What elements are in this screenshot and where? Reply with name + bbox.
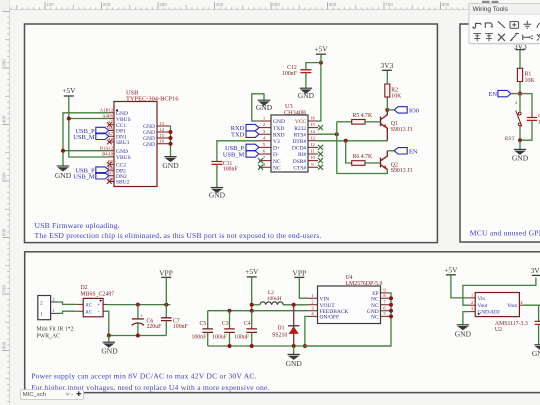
U4 right pin names [367, 291, 379, 321]
svg-text:VCC: VCC [295, 119, 307, 125]
svg-text:B4A9: B4A9 [102, 152, 114, 157]
U2 AMS1117-3.3 body [469, 298, 475, 312]
svg-text:RXD: RXD [273, 132, 285, 138]
capacitor C3 100uF [229, 311, 231, 329]
svg-text:VBUS: VBUS [116, 155, 131, 161]
wire: R5 left lead [337, 121, 352, 123]
svg-text:D+: D+ [273, 146, 280, 152]
wire: VCC up to +5V [318, 63, 321, 121]
junction GND branch [61, 149, 65, 153]
svg-text:+5V: +5V [314, 45, 328, 54]
capacitor (reset, right branch) [527, 118, 537, 121]
USB right pin names GND x4 [143, 124, 155, 148]
icon: ground flag [524, 21, 532, 28]
palette panel [470, 5, 540, 45]
wire: connector pin1 to D2 [57, 311, 77, 313]
wire VBUS B-side [69, 119, 109, 158]
svg-text:13: 13 [160, 121, 165, 126]
junction RTS# [335, 132, 339, 136]
sheet 2 (top-right schematic page) [460, 24, 540, 242]
svg-text:14: 14 [310, 129, 315, 134]
svg-text:Vin: Vin [478, 296, 486, 302]
wire GND A-side [63, 113, 109, 166]
wire: ON/OFF to GND rail [305, 316, 308, 346]
svg-text:100uH: 100uH [267, 296, 282, 302]
wire: R6 branch [346, 141, 352, 163]
wire: GND rail (caps) [208, 345, 391, 347]
wire: +5V stem down through rails [251, 277, 253, 311]
svg-text:+5V: +5V [245, 267, 259, 276]
wire: cap bottom to node [520, 121, 532, 141]
svg-text:EN: EN [409, 148, 418, 155]
svg-text:400: 400 [2, 115, 7, 123]
icon: pin [523, 35, 533, 40]
U4 left pin numbers [311, 293, 314, 316]
svg-text:R6 4.7K: R6 4.7K [353, 154, 373, 160]
svg-text:LM2576DP-5.0: LM2576DP-5.0 [346, 281, 383, 287]
no-connect X on pin8 NC [258, 165, 263, 170]
svg-text:220uF: 220uF [147, 324, 163, 330]
wire: R6 right lead to Q2 base [365, 162, 380, 164]
svg-text:600: 600 [2, 228, 7, 236]
svg-text:GND: GND [101, 347, 118, 356]
U4 LM2576DP-5.0 body [318, 286, 381, 324]
wire: R1 to EN node [519, 82, 521, 94]
svg-text:A6: A6 [108, 125, 114, 130]
svg-text:GND: GND [532, 349, 540, 358]
junction GND 14 [169, 130, 173, 134]
wire: U3 pin1 GND loop up [252, 94, 264, 121]
wire: connector pin2 to D2 [57, 302, 77, 304]
svg-text:NC: NC [371, 297, 379, 303]
capacitor C7 100nF [165, 305, 167, 318]
svg-text:100nF: 100nF [173, 324, 189, 330]
svg-text:ON/OFF: ON/OFF [320, 315, 340, 321]
svg-text:DTR#: DTR# [292, 139, 306, 145]
svg-text:A1B12: A1B12 [100, 108, 114, 113]
svg-text:GND/ADJ: GND/ADJ [478, 310, 500, 316]
tab chevron [66, 393, 69, 395]
svg-text:SBU1: SBU1 [116, 140, 130, 146]
svg-text:A4B9: A4B9 [102, 113, 114, 118]
svg-text:100uF: 100uF [234, 334, 250, 340]
junction GND rail at D2 drop [107, 334, 111, 338]
svg-text:Power supply can accept min 8V: Power supply can accept min 8V DC/AC to … [31, 372, 257, 381]
wire: D2 - to GND rail [106, 311, 109, 335]
svg-text:DCD#: DCD# [292, 146, 307, 152]
USB left pin names [116, 111, 131, 186]
svg-text:+5V: +5V [62, 86, 76, 95]
svg-text:Vout: Vout [478, 303, 488, 309]
D2 + output stub [103, 303, 106, 305]
capacitor C5 100nF [207, 311, 209, 329]
USB right pin numbers [160, 121, 165, 144]
wire: Q2 collector to EN flag [387, 150, 394, 152]
junction pin6 [389, 309, 393, 313]
wire: EN flag to node [511, 93, 520, 95]
svg-text:GND: GND [143, 142, 155, 148]
junction C4 bottom [250, 344, 254, 348]
ruler corner [0, 0, 10, 10]
wire: cap branch right [520, 94, 532, 118]
svg-text:U2: U2 [495, 327, 502, 333]
svg-text:+5V: +5V [444, 265, 458, 274]
U4 right pin numbers [383, 288, 386, 317]
svg-text:700: 700 [385, 2, 393, 7]
wire: switch bottom lead [519, 126, 521, 140]
resistor R5 4.7K [352, 120, 365, 125]
USB connector TYPEC-304-BCP16 body [114, 102, 157, 187]
junction GND 16 [169, 142, 173, 146]
svg-text:VPP: VPP [292, 268, 306, 277]
wire: VPP rail (D2 to C7) [106, 304, 170, 306]
svg-text:3V3: 3V3 [380, 61, 393, 70]
junction C6 bottom [136, 334, 140, 338]
D2 - output stub [103, 310, 106, 312]
wire: Vout right pin [519, 304, 523, 306]
svg-text:AC: AC [85, 311, 92, 316]
inductor L2 100uH [260, 302, 283, 305]
wire: 3V3 to R1 [519, 50, 521, 69]
svg-text:USB_M: USB_M [73, 134, 95, 141]
svg-text:The ESD protection chip is eli: The ESD protection chip is eliminated, a… [35, 231, 322, 240]
svg-text:AMS1117-3.3: AMS1117-3.3 [495, 321, 528, 327]
svg-text:VIN: VIN [320, 296, 330, 302]
svg-text:GND: GND [286, 359, 303, 368]
capacitor C11 100nF [211, 162, 222, 165]
net flag TXD (to pin3 RXD) [246, 131, 259, 137]
svg-text:S9013 J3: S9013 J3 [391, 127, 413, 133]
U3 right pin stubs 16-9 [308, 121, 318, 167]
junction C6 top [136, 303, 140, 307]
svg-text:PWR_AC: PWR_AC [37, 334, 61, 340]
junction ON/OFF at rail [303, 344, 307, 348]
ground symbol (USB left) [57, 166, 69, 171]
svg-text:NC: NC [371, 315, 379, 321]
svg-text:USB_M: USB_M [223, 152, 245, 159]
svg-text:100nF: 100nF [223, 167, 239, 173]
svg-text:GND: GND [256, 103, 273, 112]
no-connect X on SBU2 [107, 179, 112, 184]
wire: R2 bottom lead [386, 97, 388, 110]
icon: net label [510, 22, 519, 29]
no-connect X on pin7 NC [258, 158, 263, 163]
svg-text:DSR#: DSR# [293, 159, 307, 165]
svg-text:100nF: 100nF [282, 71, 298, 77]
net flag USB_M (to pin6 D-) [246, 151, 259, 157]
svg-text:11: 11 [310, 149, 315, 154]
capacitor C6 220uF polarized [137, 305, 139, 319]
ground symbol (buck) [288, 354, 300, 359]
svg-text:C3: C3 [222, 321, 229, 327]
connector PWR_AC Mini Fit JR 1*2 [38, 296, 51, 320]
svg-text:GND: GND [455, 329, 472, 338]
svg-text:D2: D2 [81, 285, 88, 291]
net flag USB_P (to DP2) [96, 167, 109, 173]
junction pin7 [389, 303, 393, 307]
svg-text:16: 16 [310, 116, 315, 121]
svg-text:TXD: TXD [231, 132, 245, 139]
transistor Q2 S9013 [381, 151, 388, 170]
ground symbol (USB right) [164, 157, 176, 162]
wire: GND/ADJ to ground [463, 312, 470, 325]
U3 left pin names [273, 119, 285, 171]
svg-text:10: 10 [310, 155, 315, 160]
svg-text:GND: GND [162, 161, 179, 170]
junction DTR# / R6 [344, 139, 348, 143]
junction C3 bottom [228, 344, 232, 348]
transistor Q1 S9013 [381, 110, 388, 141]
wire: VOUT to L2 [283, 304, 308, 306]
svg-text:100uF: 100uF [212, 334, 228, 340]
ground symbol (RST) [514, 149, 526, 154]
svg-text:Mini Fit JR 1*2: Mini Fit JR 1*2 [37, 327, 74, 333]
svg-text:RST: RST [505, 136, 516, 142]
svg-text:C4: C4 [244, 321, 251, 327]
svg-text:300: 300 [159, 2, 167, 7]
USB left pin stubs [109, 113, 114, 182]
net flag USB_P (to pin5 D+) [246, 144, 259, 150]
svg-text:D-: D- [273, 152, 279, 158]
svg-text:GND: GND [298, 91, 315, 100]
ground symbol (U2) [457, 325, 469, 330]
junction C4 top [250, 309, 254, 313]
svg-text:GND: GND [209, 191, 226, 200]
ground symbol (above U3) [258, 100, 270, 105]
svg-text:800: 800 [442, 2, 450, 7]
left ruler [0, 0, 10, 405]
U4 right pin stubs [381, 293, 390, 317]
svg-text:GND: GND [273, 119, 285, 125]
svg-text:Wiring Tools: Wiring Tools [473, 6, 509, 13]
svg-text:400: 400 [216, 2, 224, 7]
svg-text:Vout: Vout [507, 303, 517, 309]
svg-text:-: - [98, 309, 100, 315]
add sheet + button [77, 391, 82, 396]
wire: C11 to ground [216, 165, 218, 188]
U3 CH340B body [271, 115, 308, 172]
svg-text:RTS#: RTS# [294, 132, 307, 138]
svg-text:IO0: IO0 [409, 107, 419, 114]
svg-text:GND: GND [512, 153, 529, 162]
capacitor C12 100nF [300, 70, 311, 73]
svg-text:B8: B8 [108, 176, 114, 181]
ground symbol (bridge) [103, 342, 115, 347]
wire: switch top lead [519, 94, 521, 112]
svg-text:B7: B7 [108, 171, 114, 176]
net flag IO0 [394, 107, 407, 113]
svg-text:16: 16 [160, 139, 165, 144]
svg-text:C5: C5 [200, 321, 207, 327]
bridge rectifier D2 MB6S_C2487 [76, 304, 83, 311]
U3 right pin names [292, 119, 307, 171]
no-connect X on pin10 DSR# [318, 158, 323, 163]
net flag EN [394, 148, 407, 154]
top ruler [0, 0, 540, 10]
svg-text:300: 300 [2, 59, 7, 67]
svg-text:B6: B6 [108, 165, 114, 170]
icon: no connect [498, 34, 505, 41]
svg-text:13: 13 [310, 135, 315, 140]
junction Q1 collector / R2 / IO0 [385, 108, 389, 112]
USB left pin numbers [100, 108, 114, 182]
svg-text:EN: EN [488, 91, 497, 98]
icon: wire [472, 23, 481, 28]
junction pin5 [389, 314, 393, 318]
wire: DTR# rail [318, 140, 387, 142]
wire: C12 to ground [305, 73, 307, 88]
svg-text:VBUS: VBUS [116, 117, 131, 123]
svg-text:SS210: SS210 [272, 332, 287, 338]
U3 left pin numbers [263, 116, 266, 167]
wire: right GND bus [170, 126, 172, 156]
wire: VPP to VIN [299, 277, 308, 298]
resistor R1 10K [517, 68, 522, 81]
svg-text:15: 15 [160, 133, 165, 138]
svg-text:GND: GND [116, 149, 128, 155]
svg-text:500: 500 [2, 172, 7, 180]
wire: RTS vertical rail [337, 122, 388, 174]
svg-text:TYPEC-304-BCP16: TYPEC-304-BCP16 [126, 96, 179, 103]
wire VBUS A-side [69, 118, 109, 120]
icon: bus [485, 23, 492, 28]
svg-text:V3: V3 [273, 139, 280, 145]
wire: to IO0 flag [387, 109, 394, 111]
svg-text:MIC_sch: MIC_sch [23, 392, 46, 398]
tab MIC_sch [21, 390, 84, 400]
svg-text:R1: R1 [525, 72, 532, 78]
wire: GND stem mid [293, 346, 295, 354]
wire: RTS# to R5 net [318, 133, 337, 135]
svg-text:VPP: VPP [159, 268, 173, 277]
wire GND B-side branch [63, 150, 109, 152]
svg-text:TXD: TXD [273, 126, 284, 132]
wire: C12 branch [306, 63, 321, 70]
junction pin8 [389, 296, 393, 300]
no-connect X on pin9 CTS# [318, 165, 323, 170]
pin 1 marker dot [116, 109, 118, 111]
USB right pin stubs 13-16 [157, 126, 171, 144]
svg-text:GND: GND [55, 171, 72, 180]
svg-text:SBU2: SBU2 [116, 180, 130, 186]
diode D1 SS210 [293, 305, 295, 346]
no-connect X on SBU1 [107, 140, 112, 145]
wire: U4 right pins bus to GND rail [305, 293, 391, 346]
wire: Vout(left) up and across to 3V3 [463, 278, 536, 306]
junction D1 top [292, 303, 296, 307]
net flag RXD (to pin2 TXD) [246, 124, 259, 130]
svg-text:R232: R232 [294, 126, 306, 132]
U4 left pin names [320, 296, 349, 320]
resistor R2 10K [385, 84, 390, 97]
svg-text:14: 14 [160, 127, 165, 132]
wire: V3 to C11 [217, 141, 259, 162]
svg-text:A5: A5 [108, 120, 114, 125]
svg-text:USB_M: USB_M [73, 173, 95, 180]
wire: R5 right lead to Q1 base [365, 121, 380, 123]
svg-text:R5 4.7K: R5 4.7K [353, 113, 373, 119]
icon: clipped right row2 [537, 34, 540, 40]
svg-text:10K: 10K [525, 78, 536, 84]
svg-text:200: 200 [103, 2, 111, 7]
sheet 3 (bottom schematic page) [25, 252, 540, 393]
capacitor at right edge (clipped) [538, 305, 540, 321]
U4 left pin stubs [308, 298, 318, 316]
svg-text:A7: A7 [108, 131, 114, 136]
svg-text:MB6S_C2487: MB6S_C2487 [81, 291, 115, 297]
resistor R6 4.7K [352, 161, 365, 166]
junction EN node [518, 92, 522, 96]
net flag USB_P (to DP1) [96, 127, 109, 133]
svg-text:CTS#: CTS# [293, 165, 306, 171]
svg-text:AC: AC [85, 304, 92, 309]
ground symbol (C12) [300, 88, 312, 93]
svg-text:CH340B: CH340B [284, 109, 306, 116]
icon: flag (clipped) [537, 23, 540, 28]
icon: bus entry [498, 21, 505, 28]
wire: L2 left connect [252, 304, 260, 306]
no-connect X on pin11 RI# [318, 152, 323, 157]
U3 right pin numbers [310, 116, 315, 167]
ground symbol (right edge, clipped) [534, 345, 540, 350]
wire: GND stem [108, 336, 110, 343]
svg-text:D1: D1 [277, 325, 284, 331]
push button RST [516, 111, 522, 127]
junction GND 15 [169, 136, 173, 140]
net flag EN (sheet2) [498, 90, 511, 96]
junction D1 bottom [292, 344, 296, 348]
no-connect X on pin12 DCD# [318, 145, 323, 150]
svg-text:USB Firmware uploading.: USB Firmware uploading. [35, 221, 120, 230]
icon: voltage probe [510, 33, 519, 41]
junction C3 top [228, 309, 232, 313]
+5V power symbol (left, above USB) [62, 86, 76, 96]
svg-text:MCU and unused GPIOs: MCU and unused GPIOs [470, 228, 540, 237]
junction +5V at L2 rail [250, 303, 254, 307]
net flag USB_M (to DN2) [96, 173, 109, 179]
ground symbol (C11) [211, 188, 223, 193]
icon: VCC flag [485, 34, 493, 42]
wire: +5V to Vin [451, 275, 470, 298]
svg-text:12: 12 [310, 142, 315, 147]
net flag USB_M (to DN1) [96, 133, 109, 139]
no-connect X on CC2 [107, 162, 112, 167]
wire: R2 to 3V3 [386, 70, 388, 84]
svg-text:500: 500 [272, 2, 280, 7]
junction RST node [518, 138, 522, 142]
svg-text:700: 700 [2, 285, 7, 293]
svg-text:+: + [97, 302, 100, 308]
svg-text:800: 800 [2, 341, 7, 349]
junction C7/VPP top [164, 303, 168, 307]
svg-text:10K: 10K [391, 93, 402, 99]
wire: GND rail (D2 area) [109, 335, 167, 337]
svg-text:100: 100 [46, 2, 54, 7]
svg-text:A8: A8 [108, 137, 114, 142]
icon: +5V flag [473, 34, 481, 42]
svg-text:100nF: 100nF [191, 334, 207, 340]
junction +5V / C12 [319, 61, 323, 65]
capacitor C4 100uF [251, 311, 253, 329]
svg-text:B5: B5 [108, 159, 114, 164]
no-connect X on CC1 [107, 122, 112, 127]
svg-text:600: 600 [329, 2, 337, 7]
junction VBUS [67, 117, 71, 121]
wire +5V stem to VBUS rail [68, 96, 70, 119]
sheet 1 (top-left schematic page) [25, 24, 438, 243]
svg-text:3V3: 3V3 [530, 266, 540, 275]
svg-text:S9013 J3: S9013 J3 [391, 168, 413, 174]
